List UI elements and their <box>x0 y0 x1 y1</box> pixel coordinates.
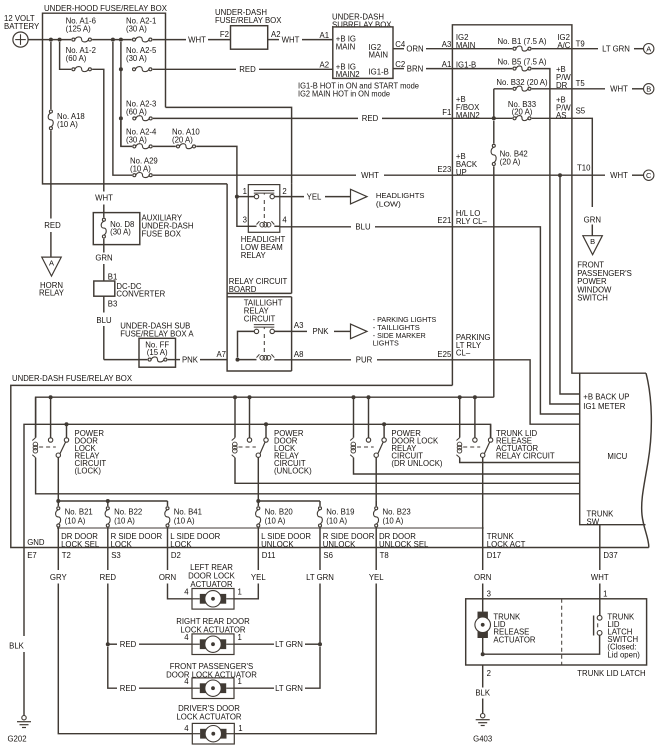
wire DR UNLOCK relay output to fuse B23 <box>375 457 377 506</box>
svg-text:A: A <box>646 45 651 54</box>
svg-text:No. B19: No. B19 <box>326 507 354 516</box>
svg-text:(10 A): (10 A) <box>265 516 286 525</box>
svg-text:RED: RED <box>120 684 137 693</box>
svg-text:+B BACK UP: +B BACK UP <box>583 393 629 402</box>
svg-text:4: 4 <box>282 215 287 224</box>
node S3 branch <box>106 642 110 646</box>
svg-text:LT GRN: LT GRN <box>306 573 334 582</box>
wire D11 YEL to left rear pin1 <box>234 592 258 599</box>
svg-text:A8: A8 <box>294 350 304 359</box>
fuse A10 (20A) <box>153 145 176 147</box>
svg-text:MAIN: MAIN <box>336 43 356 52</box>
node F1 junction <box>492 116 496 120</box>
svg-text:E21: E21 <box>437 216 451 225</box>
wire DR UNLOCK coil to MICU <box>354 458 580 474</box>
fuse FF (15A) <box>104 359 148 361</box>
svg-text:PUR: PUR <box>356 356 373 365</box>
svg-text:S3: S3 <box>111 551 121 560</box>
svg-text:A/C: A/C <box>557 41 570 50</box>
relay DR UNLOCK coil-switch link <box>357 446 374 448</box>
svg-text:ACTUATOR: ACTUATOR <box>190 580 233 589</box>
svg-text:ORN: ORN <box>474 573 491 582</box>
svg-text:No. B41: No. B41 <box>174 507 202 516</box>
wire F2 to subrelay A1 <box>268 39 279 41</box>
node battery junction 2 <box>58 38 62 42</box>
svg-text:YEL: YEL <box>369 573 384 582</box>
relay TRUNK moving contact <box>481 453 485 457</box>
bus B42 power to relays <box>36 397 494 437</box>
fuse B19 (10 A) <box>319 501 321 506</box>
svg-text:RED: RED <box>100 573 117 582</box>
wire D17 ORN <box>482 548 484 571</box>
wire A1-2 out to aux fuse box <box>92 69 104 191</box>
svg-text:4: 4 <box>184 588 189 597</box>
svg-text:A3: A3 <box>294 321 304 330</box>
svg-text:A1: A1 <box>442 60 452 69</box>
svg-text:GND: GND <box>27 538 45 547</box>
relay TRUNK coil <box>459 397 461 437</box>
wire S6 LT GRN <box>319 548 321 571</box>
wire pin4 BLU to E21 <box>280 226 351 228</box>
svg-text:BLK: BLK <box>475 689 491 698</box>
svg-text:D37: D37 <box>603 551 617 560</box>
svg-text:(DR UNLOCK): (DR UNLOCK) <box>391 459 443 468</box>
wire branch headlight feed <box>166 107 292 183</box>
svg-text:UNLOCK: UNLOCK <box>323 540 356 549</box>
svg-text:LOCK ACTUATOR: LOCK ACTUATOR <box>176 713 242 722</box>
svg-text:WHT: WHT <box>188 35 206 44</box>
svg-text:G403: G403 <box>473 735 492 744</box>
bus lock fuses <box>58 500 167 502</box>
svg-text:3: 3 <box>243 215 247 224</box>
svg-text:RED: RED <box>239 65 256 74</box>
auxiliary under-dash fuse box <box>93 213 140 245</box>
wire A3 PNK to parking lights <box>274 330 291 332</box>
node pin1 feed <box>235 195 239 199</box>
svg-text:- SIDE MARKER: - SIDE MARKER <box>373 333 426 340</box>
wire LOCK relay output to fuse bus <box>57 457 59 501</box>
wire PNK to A7 <box>168 359 180 361</box>
wire to A29 <box>113 42 132 175</box>
relay LOCK moving contact <box>56 453 60 457</box>
svg-text:PNK: PNK <box>182 355 199 364</box>
ground G403 <box>481 714 485 718</box>
svg-text:No. B32 (20 A): No. B32 (20 A) <box>496 78 548 87</box>
svg-text:B1: B1 <box>108 273 118 282</box>
svg-text:BLU: BLU <box>96 316 112 325</box>
relay TRUNK fixed contact right <box>490 424 492 438</box>
svg-text:1: 1 <box>243 187 247 196</box>
svg-text:4: 4 <box>184 724 189 733</box>
svg-text:BOARD: BOARD <box>229 285 257 294</box>
svg-text:LOCK: LOCK <box>170 540 192 549</box>
svg-text:D2: D2 <box>171 551 181 560</box>
node +B BACK UP branch <box>558 173 562 177</box>
svg-text:ACTUATOR: ACTUATOR <box>493 635 536 644</box>
fuse A18 (10A) <box>50 42 52 109</box>
svg-text:BATTERY: BATTERY <box>4 22 40 31</box>
wire S3 RED <box>107 548 109 571</box>
svg-text:SUBRELAY BOX: SUBRELAY BOX <box>332 21 392 30</box>
svg-text:No. B23: No. B23 <box>383 507 411 516</box>
fuse B42 (20A) <box>493 121 495 144</box>
divider terminal strip <box>57 527 484 529</box>
svg-text:T9: T9 <box>576 40 585 49</box>
relay UNLOCK coil-switch link <box>239 446 256 448</box>
svg-text:UNLOCK SEL: UNLOCK SEL <box>379 540 429 549</box>
svg-text:LOCK SEL: LOCK SEL <box>61 540 100 549</box>
svg-text:WHT: WHT <box>591 573 609 582</box>
wire A18 to horn relay RED <box>50 130 52 218</box>
relay LOCK fixed contact left <box>50 397 52 438</box>
wire to A2-5 <box>120 42 122 146</box>
svg-text:A7: A7 <box>216 350 226 359</box>
wire TRUNK relay output to D17 <box>482 457 484 547</box>
svg-text:No. B20: No. B20 <box>265 507 294 516</box>
svg-text:DR: DR <box>556 81 568 90</box>
svg-text:F2: F2 <box>220 30 229 39</box>
svg-text:ORN: ORN <box>406 45 423 54</box>
svg-text:A2: A2 <box>320 61 330 70</box>
svg-text:(LOCK): (LOCK) <box>75 467 102 476</box>
node junction A column 2 <box>119 38 123 42</box>
svg-text:3: 3 <box>487 590 491 599</box>
svg-text:G202: G202 <box>7 735 26 744</box>
wire to A2-4 <box>121 121 132 147</box>
svg-text:MICU: MICU <box>607 452 627 461</box>
svg-text:CONVERTER: CONVERTER <box>116 289 165 298</box>
svg-text:A1: A1 <box>320 31 330 40</box>
svg-text:- TAILLIGHTS: - TAILLIGHTS <box>373 325 420 332</box>
relay DR UNLOCK fixed contact left <box>368 397 370 438</box>
svg-text:SWITCH: SWITCH <box>577 294 608 303</box>
svg-text:RELAY: RELAY <box>39 289 65 298</box>
fuse B1 (7.5A) <box>513 47 516 50</box>
wire B32 to T5 WHT connector B <box>532 88 605 90</box>
connector B front passenger window switch <box>583 236 603 255</box>
svg-text:FUSE BOX: FUSE BOX <box>142 230 182 239</box>
svg-text:C: C <box>646 171 652 180</box>
svg-text:S6: S6 <box>323 551 333 560</box>
svg-text:T5: T5 <box>576 79 586 88</box>
svg-text:C2: C2 <box>395 60 405 69</box>
fuse B20 (10 A) <box>257 501 259 506</box>
svg-text:- PARKING LIGHTS: - PARKING LIGHTS <box>373 317 437 324</box>
svg-text:(30 A): (30 A) <box>126 54 147 63</box>
svg-text:D17: D17 <box>487 551 501 560</box>
svg-text:1: 1 <box>238 677 242 686</box>
wire D37 WHT <box>599 548 601 571</box>
svg-text:1: 1 <box>238 724 242 733</box>
svg-text:FUSE/RELAY BOX A: FUSE/RELAY BOX A <box>120 329 194 338</box>
svg-text:E7: E7 <box>27 551 37 560</box>
fuse B22 (10 A) <box>107 501 109 506</box>
svg-text:YEL: YEL <box>307 192 322 201</box>
fuse A1-2 (60A) <box>72 68 75 71</box>
svg-text:LIGHTS: LIGHTS <box>373 341 399 348</box>
fuse B33 (20A) <box>513 117 516 120</box>
wire GRY to driver pin4 <box>58 592 192 734</box>
svg-text:PNK: PNK <box>312 327 329 336</box>
svg-text:RLY CL–: RLY CL– <box>456 217 488 226</box>
wire RED to front passenger pin4 <box>108 647 117 689</box>
trunk lid release actuator motor <box>482 599 484 612</box>
relay UNLOCK moving contact <box>256 453 260 457</box>
fuse B41 (10 A) <box>167 501 169 506</box>
relay circuit board box <box>227 184 292 371</box>
wire T2 GRY <box>57 548 59 571</box>
svg-text:1: 1 <box>238 588 242 597</box>
wire taillight contact feed <box>238 331 255 357</box>
svg-text:SW: SW <box>587 517 600 526</box>
svg-text:A3: A3 <box>442 40 452 49</box>
svg-text:(10 A): (10 A) <box>383 516 404 525</box>
svg-text:(30 A): (30 A) <box>110 228 131 237</box>
svg-text:RELAY CIRCUIT: RELAY CIRCUIT <box>496 452 555 461</box>
wire E25 to MICU <box>452 360 579 424</box>
relay UNLOCK fixed contact right <box>265 424 267 438</box>
trunk lid latch switch <box>599 599 601 616</box>
svg-text:(10 A): (10 A) <box>174 516 195 525</box>
fuse B21 (10 A) <box>57 501 59 506</box>
svg-text:S5: S5 <box>576 107 586 116</box>
svg-text:LT GRN: LT GRN <box>275 684 303 693</box>
svg-text:(10 A): (10 A) <box>114 516 135 525</box>
svg-text:GRY: GRY <box>50 573 68 582</box>
svg-text:TRUNK LID LATCH: TRUNK LID LATCH <box>577 669 645 678</box>
svg-text:WHT: WHT <box>610 171 628 180</box>
wire B5 to IG1 METER <box>532 69 580 404</box>
bus ground E7 <box>24 424 491 547</box>
wire LT GRN front passenger pin1 <box>234 687 274 689</box>
svg-text:1: 1 <box>238 633 242 642</box>
svg-text:T10: T10 <box>577 163 591 172</box>
relay TRUNK coil-switch link <box>463 446 480 448</box>
fuse A29 (10A) <box>133 174 136 177</box>
svg-text:WHT: WHT <box>95 194 113 203</box>
wire E21 to MICU <box>452 227 579 414</box>
svg-text:(UNLOCK): (UNLOCK) <box>274 467 312 476</box>
fuse A2-1 (30A) <box>133 38 136 41</box>
wire to latch switch <box>483 635 600 654</box>
wire LT GRN right rear pin1 <box>234 643 274 645</box>
svg-text:E25: E25 <box>437 350 452 359</box>
svg-text:(20 A): (20 A) <box>172 136 193 145</box>
svg-text:(20 A): (20 A) <box>512 108 533 117</box>
relay DR UNLOCK coil <box>353 397 355 437</box>
wire B33 to S5 GRN window switch <box>532 117 572 119</box>
node trunk motor out <box>481 652 485 656</box>
wire TRUNK coil to MICU <box>460 458 580 463</box>
svg-text:(60 A): (60 A) <box>66 54 87 63</box>
wire UNLOCK relay output to fuse bus <box>257 457 259 501</box>
wire D11 YEL <box>257 548 259 571</box>
wire A8 PUR to E25 <box>274 359 291 361</box>
fuse B32 (20A) <box>513 87 516 90</box>
svg-text:(15 A): (15 A) <box>147 348 168 357</box>
relay LOCK fixed contact right <box>66 424 68 438</box>
svg-text:4: 4 <box>184 677 189 686</box>
trunk lid latch box <box>466 599 647 665</box>
svg-text:FUSE/RELAY BOX: FUSE/RELAY BOX <box>215 16 282 25</box>
svg-text:F1: F1 <box>442 108 451 117</box>
svg-text:B3: B3 <box>108 300 118 309</box>
wire B42 down to relay bus <box>493 166 495 397</box>
DC-DC converter <box>94 281 115 296</box>
wire BLU to FF <box>103 296 105 312</box>
terminal TRUNK SW D37 <box>599 525 601 548</box>
relay TRUNK fixed contact left <box>474 397 476 438</box>
headlight low beam relay <box>248 185 279 233</box>
svg-text:(30 A): (30 A) <box>126 25 147 34</box>
svg-text:RED: RED <box>362 114 379 123</box>
svg-text:GRN: GRN <box>584 216 601 225</box>
svg-text:T2: T2 <box>62 551 71 560</box>
arrow headlights <box>351 189 368 204</box>
svg-text:(LOW): (LOW) <box>376 201 401 208</box>
svg-text:B: B <box>590 237 595 246</box>
node battery junction 1 <box>49 38 53 42</box>
svg-text:4: 4 <box>184 633 189 642</box>
wire UNLOCK coil to MICU <box>235 458 580 484</box>
wire A29 out WHT to E23 <box>153 174 356 176</box>
svg-text:2: 2 <box>282 187 286 196</box>
battery 12V <box>13 32 28 47</box>
svg-text:ORN: ORN <box>159 573 176 582</box>
svg-text:(10 A): (10 A) <box>65 516 86 525</box>
svg-text:2: 2 <box>487 669 491 678</box>
svg-text:(10 A): (10 A) <box>57 120 78 129</box>
svg-text:BLU: BLU <box>355 223 371 232</box>
svg-text:(20 A): (20 A) <box>500 158 521 167</box>
svg-text:(125 A): (125 A) <box>66 25 92 34</box>
relay UNLOCK fixed contact left <box>249 397 251 438</box>
node A2-3 feed <box>119 116 123 120</box>
divider dashed <box>561 599 563 665</box>
wire A1-6 to A2-1 <box>92 39 132 41</box>
svg-text:IG1-B: IG1-B <box>369 68 389 77</box>
wire E23 to T10 WHT connector C <box>452 174 605 176</box>
micu box <box>580 373 646 525</box>
svg-text:RED: RED <box>44 221 61 230</box>
svg-text:No. B5 (7.5 A): No. B5 (7.5 A) <box>498 57 547 66</box>
wire to MICU +B BACK UP <box>560 175 580 394</box>
wire to A1-2 <box>60 42 72 69</box>
svg-text:LT GRN: LT GRN <box>602 45 630 54</box>
svg-text:D11: D11 <box>262 551 276 560</box>
svg-text:RELAY: RELAY <box>241 251 267 260</box>
fuse D8 (30A) <box>103 213 105 218</box>
svg-text:(10 A): (10 A) <box>326 516 347 525</box>
svg-text:E23: E23 <box>437 165 451 174</box>
relay DR UNLOCK fixed contact right <box>383 424 385 438</box>
wire A10 to headlight relay pin1 <box>196 146 237 196</box>
svg-text:IG1 METER: IG1 METER <box>583 402 625 411</box>
relay LOCK coil <box>35 397 37 437</box>
svg-text:UNDER-HOOD FUSE/RELAY BOX: UNDER-HOOD FUSE/RELAY BOX <box>44 4 168 13</box>
node taillight coil junction <box>236 358 240 362</box>
svg-text:IG2 MAIN HOT in ON mode: IG2 MAIN HOT in ON mode <box>298 90 390 99</box>
svg-text:YEL: YEL <box>251 573 266 582</box>
svg-text:AS: AS <box>556 111 566 120</box>
ground G202 <box>23 548 25 637</box>
fuse B5 (7.5A) <box>513 67 516 70</box>
svg-text:(10 A): (10 A) <box>130 165 151 174</box>
svg-text:(30 A): (30 A) <box>126 136 147 145</box>
svg-text:WHT: WHT <box>610 85 628 94</box>
wire pin3 coil feed <box>237 197 248 227</box>
svg-text:WHT: WHT <box>282 35 300 44</box>
svg-text:A: A <box>49 258 54 267</box>
svg-text:A2: A2 <box>271 30 281 39</box>
svg-text:CL–: CL– <box>456 349 471 358</box>
wire pin2 YEL to headlights <box>280 196 304 198</box>
horn relay connector A <box>42 257 62 276</box>
wire A2-1 out WHT to F2 <box>153 39 186 41</box>
wire A2-3 out RED to F1 <box>153 117 358 119</box>
svg-text:MAIN: MAIN <box>369 51 389 60</box>
node S6 branch <box>318 642 322 646</box>
svg-text:HEADLIGHTS: HEADLIGHTS <box>376 193 425 200</box>
svg-text:LOCK: LOCK <box>111 540 133 549</box>
svg-text:LOCK ACTUATOR: LOCK ACTUATOR <box>180 625 246 634</box>
node junction A column 1 <box>111 38 115 42</box>
svg-text:BRN: BRN <box>407 64 423 73</box>
relay UNLOCK coil <box>234 397 236 437</box>
svg-text:Lid open): Lid open) <box>607 650 640 659</box>
fuse A1-6 (125A) <box>72 38 75 41</box>
wire LOCK coil to MICU <box>36 458 580 494</box>
arrow parking lights <box>351 324 368 339</box>
wire T8 YEL <box>375 548 377 571</box>
bus unlock fuses <box>258 500 320 502</box>
fuse A2-3 (60A) <box>133 117 136 120</box>
wire D2 ORN to left rear pin4 <box>167 592 169 595</box>
svg-text:UNLOCK: UNLOCK <box>261 540 294 549</box>
svg-text:RED: RED <box>120 640 137 649</box>
svg-text:T8: T8 <box>380 551 389 560</box>
svg-text:WHT: WHT <box>361 171 379 180</box>
svg-text:LOCK ACT: LOCK ACT <box>487 540 526 549</box>
wire D2 ORN <box>167 548 169 571</box>
svg-text:B: B <box>646 85 651 94</box>
svg-text:BLK: BLK <box>9 642 25 651</box>
fuse A2-5 (30A) <box>133 68 136 71</box>
svg-text:LT GRN: LT GRN <box>275 640 303 649</box>
wire B1 to T9 LT GRN connector A <box>532 48 598 50</box>
relay DR UNLOCK moving contact <box>374 453 378 457</box>
svg-text:No. B22: No. B22 <box>114 507 142 516</box>
wire A2-5 out RED to subrelay A2 <box>153 68 236 70</box>
wire RED to right rear pin4 <box>107 592 109 645</box>
svg-text:UNDER-DASH FUSE/RELAY BOX: UNDER-DASH FUSE/RELAY BOX <box>12 374 133 383</box>
fuse A2-4 (30A) <box>133 145 136 148</box>
svg-text:GRN: GRN <box>95 254 112 263</box>
svg-text:MAIN2: MAIN2 <box>336 70 360 79</box>
svg-text:1: 1 <box>603 590 607 599</box>
fuse B23 (10 A) <box>375 501 377 506</box>
svg-text:CIRCUIT: CIRCUIT <box>244 315 276 324</box>
svg-text:No. B21: No. B21 <box>65 507 93 516</box>
wire GRN to DC-DC <box>103 245 105 253</box>
wire trunk 2 BLK to G403 <box>482 665 484 688</box>
relay LOCK coil-switch link <box>39 446 56 448</box>
svg-text:C4: C4 <box>395 40 406 49</box>
svg-text:(60 A): (60 A) <box>126 108 147 117</box>
wire battery to box <box>28 39 71 41</box>
svg-text:No. B1 (7.5 A): No. B1 (7.5 A) <box>498 37 547 46</box>
wire YEL to driver pin1 <box>234 592 376 734</box>
